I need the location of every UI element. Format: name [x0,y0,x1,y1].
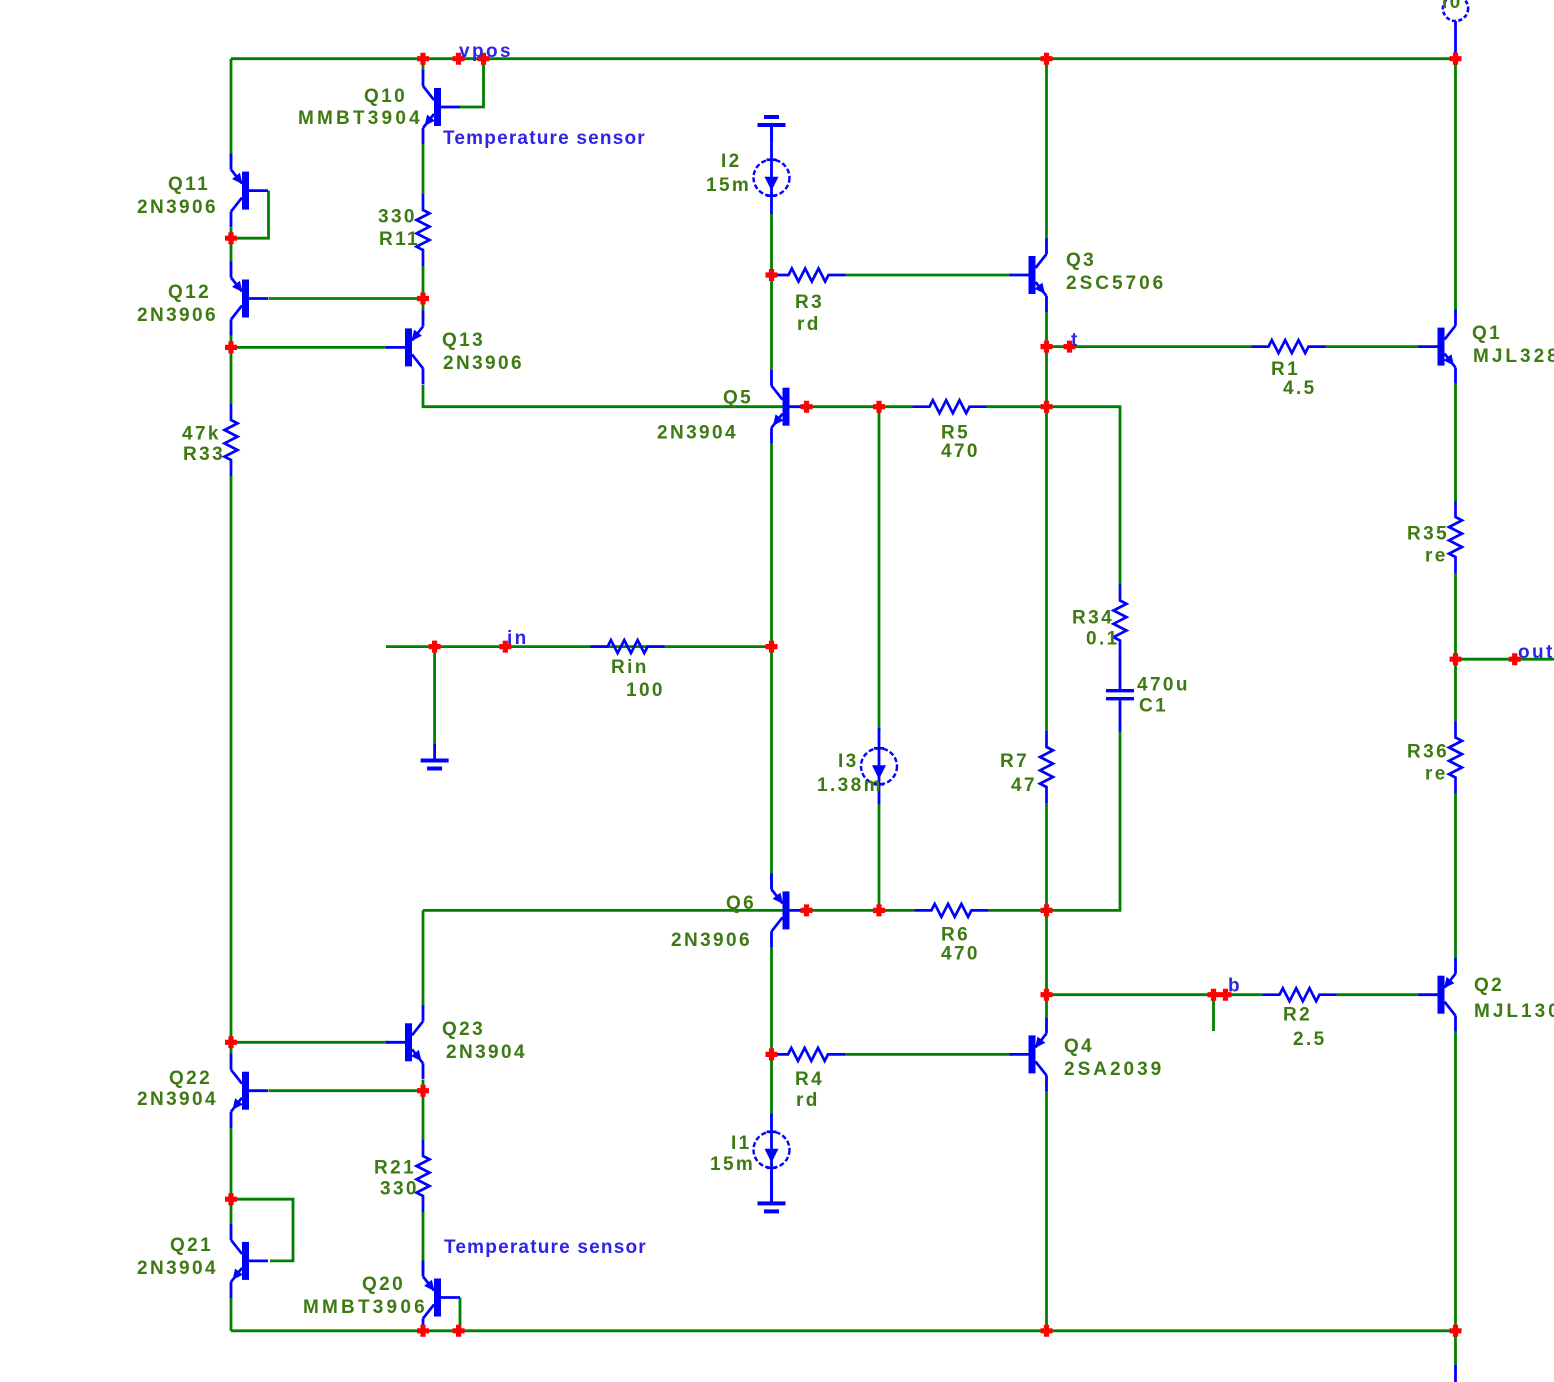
svg-text:1.38m: 1.38m [817,775,883,796]
svg-text:R36: R36 [1407,741,1449,762]
resistor R3 rd [772,269,846,282]
wire Q20 collector to bottom rail [422,1327,425,1331]
wire R11 bottom to junction [422,266,425,299]
junction dot R3/I2/Q5 node [766,269,778,281]
wire t node to R1 [1047,345,1252,348]
svg-text:vpos: vpos [459,41,513,62]
wire t node down to VAS row [1045,347,1048,407]
wire Q2 collector to bottom rail [1454,1032,1457,1331]
wire Q5 base node to R5 [807,405,913,408]
wire left rail upper (vpos to Q11) [230,59,233,162]
svg-text:MJL3281: MJL3281 [1473,346,1554,367]
resistor R33 47k [225,404,238,476]
svg-text:Temperature sensor: Temperature sensor [443,128,646,149]
resistor R1 4.5 [1252,340,1326,353]
svg-text:47k: 47k [182,424,221,445]
wire R2 to Q2 base [1337,993,1421,996]
wire R35 to out node [1454,573,1457,659]
svg-text:R4: R4 [795,1069,824,1090]
wire Q13 base [231,346,390,349]
svg-text:Q20: Q20 [362,1274,405,1295]
svg-text:Q12: Q12 [168,282,211,303]
current source I2 15m [770,124,773,214]
transistor Q2 MJL1302 (PNP) [1438,976,1445,1014]
wire input node to Q6 emitter [770,647,773,890]
svg-text:I0: I0 [1442,0,1463,13]
transistor Q22 2N3904 (NPN) [242,1072,249,1110]
wire Q4 collector to bottom rail [1045,1091,1048,1330]
wire Q11 collector to Q12 emitter [230,228,233,263]
svg-text:Q2: Q2 [1474,975,1504,996]
wire R6 right to node [988,909,1046,912]
svg-text:Q23: Q23 [442,1019,485,1040]
resistor R4 rd [771,1048,845,1061]
wire Q12 collector to Q13 base node [230,331,233,347]
wire I2 output to R3 node [770,213,773,275]
wire node to b row [1045,910,1048,994]
wire Q23 base row [231,1041,390,1044]
resistor Rin 100 [591,640,665,653]
svg-text:470: 470 [941,944,980,965]
transistor Q11 2N3906 (PNP) [242,172,249,210]
transistor Q20 MMBT3906 (PNP) [434,1279,441,1317]
svg-text:2.5: 2.5 [1293,1029,1327,1050]
junction dots t node [1041,341,1053,353]
svg-text:330: 330 [378,207,417,228]
wire b flag stub [1212,995,1215,1031]
transistor Q10 MMBT3904 (NPN) [434,88,441,126]
wire Q10 collector stub to vpos rail [422,59,425,72]
wire Q11 collector-base tie loop [231,191,269,239]
wire Q21 collector-base tie loop [231,1199,293,1261]
svg-text:Q3: Q3 [1066,250,1096,271]
wire R7 bottom [1045,803,1048,910]
svg-text:2N3906: 2N3906 [137,197,218,218]
wire Q6 base node to R6 [807,909,915,912]
resistor R6 470 [914,904,988,917]
wire node R3/I2/Q5 collector [770,275,773,370]
transistor Q4 2SA2039 (PNP) [1029,1035,1036,1073]
svg-text:2N3904: 2N3904 [137,1089,218,1110]
wire Q12 base to R11 bottom node [269,297,424,300]
svg-text:MJL1302: MJL1302 [1474,1001,1554,1022]
junction dots input row [429,641,441,653]
svg-text:R35: R35 [1407,524,1449,545]
wire Q22 base to R21 top node [269,1089,424,1092]
transistor Q23 2N3904 (NPN) [405,1023,412,1061]
svg-text:Q11: Q11 [168,174,210,195]
svg-text:Q13: Q13 [442,330,485,351]
svg-text:re: re [1425,545,1448,566]
wire b node to Q4 emitter [1045,995,1048,1018]
capacitor C1 470u [1106,689,1134,692]
transistor Q13 2N3906 (PNP) [405,328,412,366]
wire Q23 collector to Q6 base row [422,910,425,1008]
svg-text:2SA2039: 2SA2039 [1064,1059,1164,1080]
resistor R21 330 [417,1140,430,1212]
svg-text:2N3906: 2N3906 [443,353,524,374]
wire Q3 collector to vpos rail [1045,59,1048,238]
junction dot Q23 base node [225,1036,237,1048]
svg-text:out: out [1518,642,1554,663]
ground below I1 [770,1170,773,1202]
wire R33 top [230,347,233,404]
wire right rail top (vpos to Q1 collector) [1454,59,1457,311]
resistor R2 2.5 [1263,988,1337,1001]
svg-text:47: 47 [1011,775,1037,796]
svg-text:R33: R33 [183,444,225,465]
wire Q21 collector up [230,1199,233,1224]
rail flag above I2 [764,115,779,119]
ground at input [433,743,436,760]
junction dots out node [1450,653,1462,665]
resistor R36 re [1449,722,1462,794]
wire VAS node to R34 branch [1047,407,1121,585]
svg-text:R21: R21 [374,1158,416,1179]
junction dot Q21 tie [225,1193,237,1205]
junction dot Q13 base node [225,341,237,353]
wire Q22 emitter down [230,1127,233,1200]
svg-text:Q21: Q21 [170,1235,213,1256]
current source I0 (top, partially visible) [1454,21,1457,56]
svg-text:I1: I1 [731,1133,752,1154]
svg-text:15m: 15m [710,1154,755,1175]
wire R36 to Q2 emitter [1454,794,1457,958]
transistor Q6 2N3906 (PNP) [783,891,790,929]
wire low node to C1 branch [1047,732,1121,911]
svg-text:2SC5706: 2SC5706 [1066,273,1166,294]
current source I1 15m [770,1114,773,1203]
wire node R21 top / Q23 emitter [422,1080,425,1140]
svg-text:R34: R34 [1072,608,1114,629]
junction dot R21 top node [417,1085,429,1097]
svg-text:2N3904: 2N3904 [657,423,738,444]
wire left rail to Q22 [230,1042,233,1058]
svg-text:rd: rd [796,1090,820,1111]
svg-text:R3: R3 [795,292,824,313]
wire node Q13 emitter / R11 / Q12 base [422,299,425,312]
svg-text:t: t [1071,330,1080,351]
junction dot R11/Q12/Q13 node [417,293,429,305]
svg-text:Q1: Q1 [1472,323,1502,344]
wire vpos top rail [231,57,1456,60]
svg-text:C1: C1 [1139,695,1168,716]
wire input row [386,645,772,648]
wire Q20 base down to bottom rail [459,1298,462,1331]
svg-text:MMBT3904: MMBT3904 [298,108,423,129]
wire left rail lower (Q21 emitter to bottom rail) [230,1297,233,1331]
svg-text:2N3904: 2N3904 [137,1258,218,1279]
wire b row to R2 [1047,993,1263,996]
wire Q6 collector to R4 node [770,947,773,1054]
junction dot Q11 tie [225,232,237,244]
wire out node to R36 [1454,659,1457,721]
resistor R7 47 [1040,731,1053,803]
junction dots VAS row [801,401,813,413]
wire out node to edge [1456,658,1554,661]
wire input node to ground [433,647,436,744]
svg-text:re: re [1425,764,1448,785]
transistor Q3 2SC5706 (NPN) [1029,256,1036,294]
svg-text:Q4: Q4 [1064,1036,1094,1057]
svg-text:R6: R6 [941,925,970,946]
junction dots b row [1041,989,1053,1001]
svg-text:MMBT3906: MMBT3906 [303,1297,428,1318]
svg-text:330: 330 [380,1179,419,1200]
wire Q1 emitter to R35 [1454,384,1457,501]
wire I3 bottom to low row [878,804,881,911]
svg-text:R7: R7 [1000,751,1029,772]
svg-text:2N3904: 2N3904 [446,1042,527,1063]
svg-text:R1: R1 [1271,359,1300,380]
transistor Q21 2N3904 (NPN) [242,1242,249,1280]
wire bottom rail to lower current source [1454,1331,1457,1365]
svg-text:Temperature sensor: Temperature sensor [444,1237,647,1258]
wire R4 node to I1 [770,1054,773,1116]
junction dots low row [801,904,813,916]
resistor R11 330 [417,194,430,266]
resistor R5 470 [913,400,987,413]
svg-text:Q10: Q10 [364,86,407,107]
svg-text:rd: rd [797,314,821,335]
wire Q5 emitter to input node [770,444,773,647]
svg-text:I2: I2 [721,151,742,172]
svg-text:4.5: 4.5 [1283,378,1317,399]
svg-text:2N3906: 2N3906 [671,930,752,951]
svg-text:0.1: 0.1 [1086,628,1120,649]
wire Q3 emitter down to t node [1045,312,1048,347]
svg-text:R2: R2 [1283,1005,1312,1026]
wire R21 bottom to Q20 emitter [422,1212,425,1272]
svg-text:Q22: Q22 [169,1068,212,1089]
svg-text:Q6: Q6 [726,893,756,914]
junction dot R4 node [766,1048,778,1060]
svg-text:15m: 15m [706,175,751,196]
wire R1 to Q1 base [1326,345,1421,348]
junction dots bottom rail [417,1325,429,1337]
transistor Q1 MJL3281 (NPN) [1438,328,1445,366]
transistor Q12 2N3906 (PNP) [242,280,249,318]
wire Q13 collector to Q5 base row [423,385,783,407]
wire R5 right to node [987,405,1047,408]
wire R7 top [1045,407,1048,731]
svg-text:I3: I3 [838,751,859,772]
svg-text:470u: 470u [1137,675,1190,696]
wire R33 bottom long left rail [230,476,233,1042]
wire Q10 base to vpos rail [460,59,484,107]
wire Q4 base to R4 row [845,1053,1012,1056]
junction dots vpos rail [417,53,429,65]
resistor R34 0.1 [1114,585,1127,657]
svg-text:Rin: Rin [611,657,649,678]
transistor Q5 2N3904 (NPN) [783,388,790,426]
wire R3 to Q3 base [846,274,1012,277]
svg-text:100: 100 [626,680,665,701]
svg-text:2N3906: 2N3906 [137,305,218,326]
wire I3 top to VAS row [878,407,881,732]
svg-text:in: in [507,628,529,649]
current source I3 1.38m [878,728,881,804]
svg-text:R11: R11 [379,229,420,250]
svg-text:Q5: Q5 [723,388,753,409]
wire Q10 emitter to R11 top [422,144,425,194]
resistor R35 re [1449,501,1462,573]
wire bottom rail [231,1329,1456,1332]
svg-text:b: b [1228,976,1242,997]
svg-text:470: 470 [941,441,980,462]
